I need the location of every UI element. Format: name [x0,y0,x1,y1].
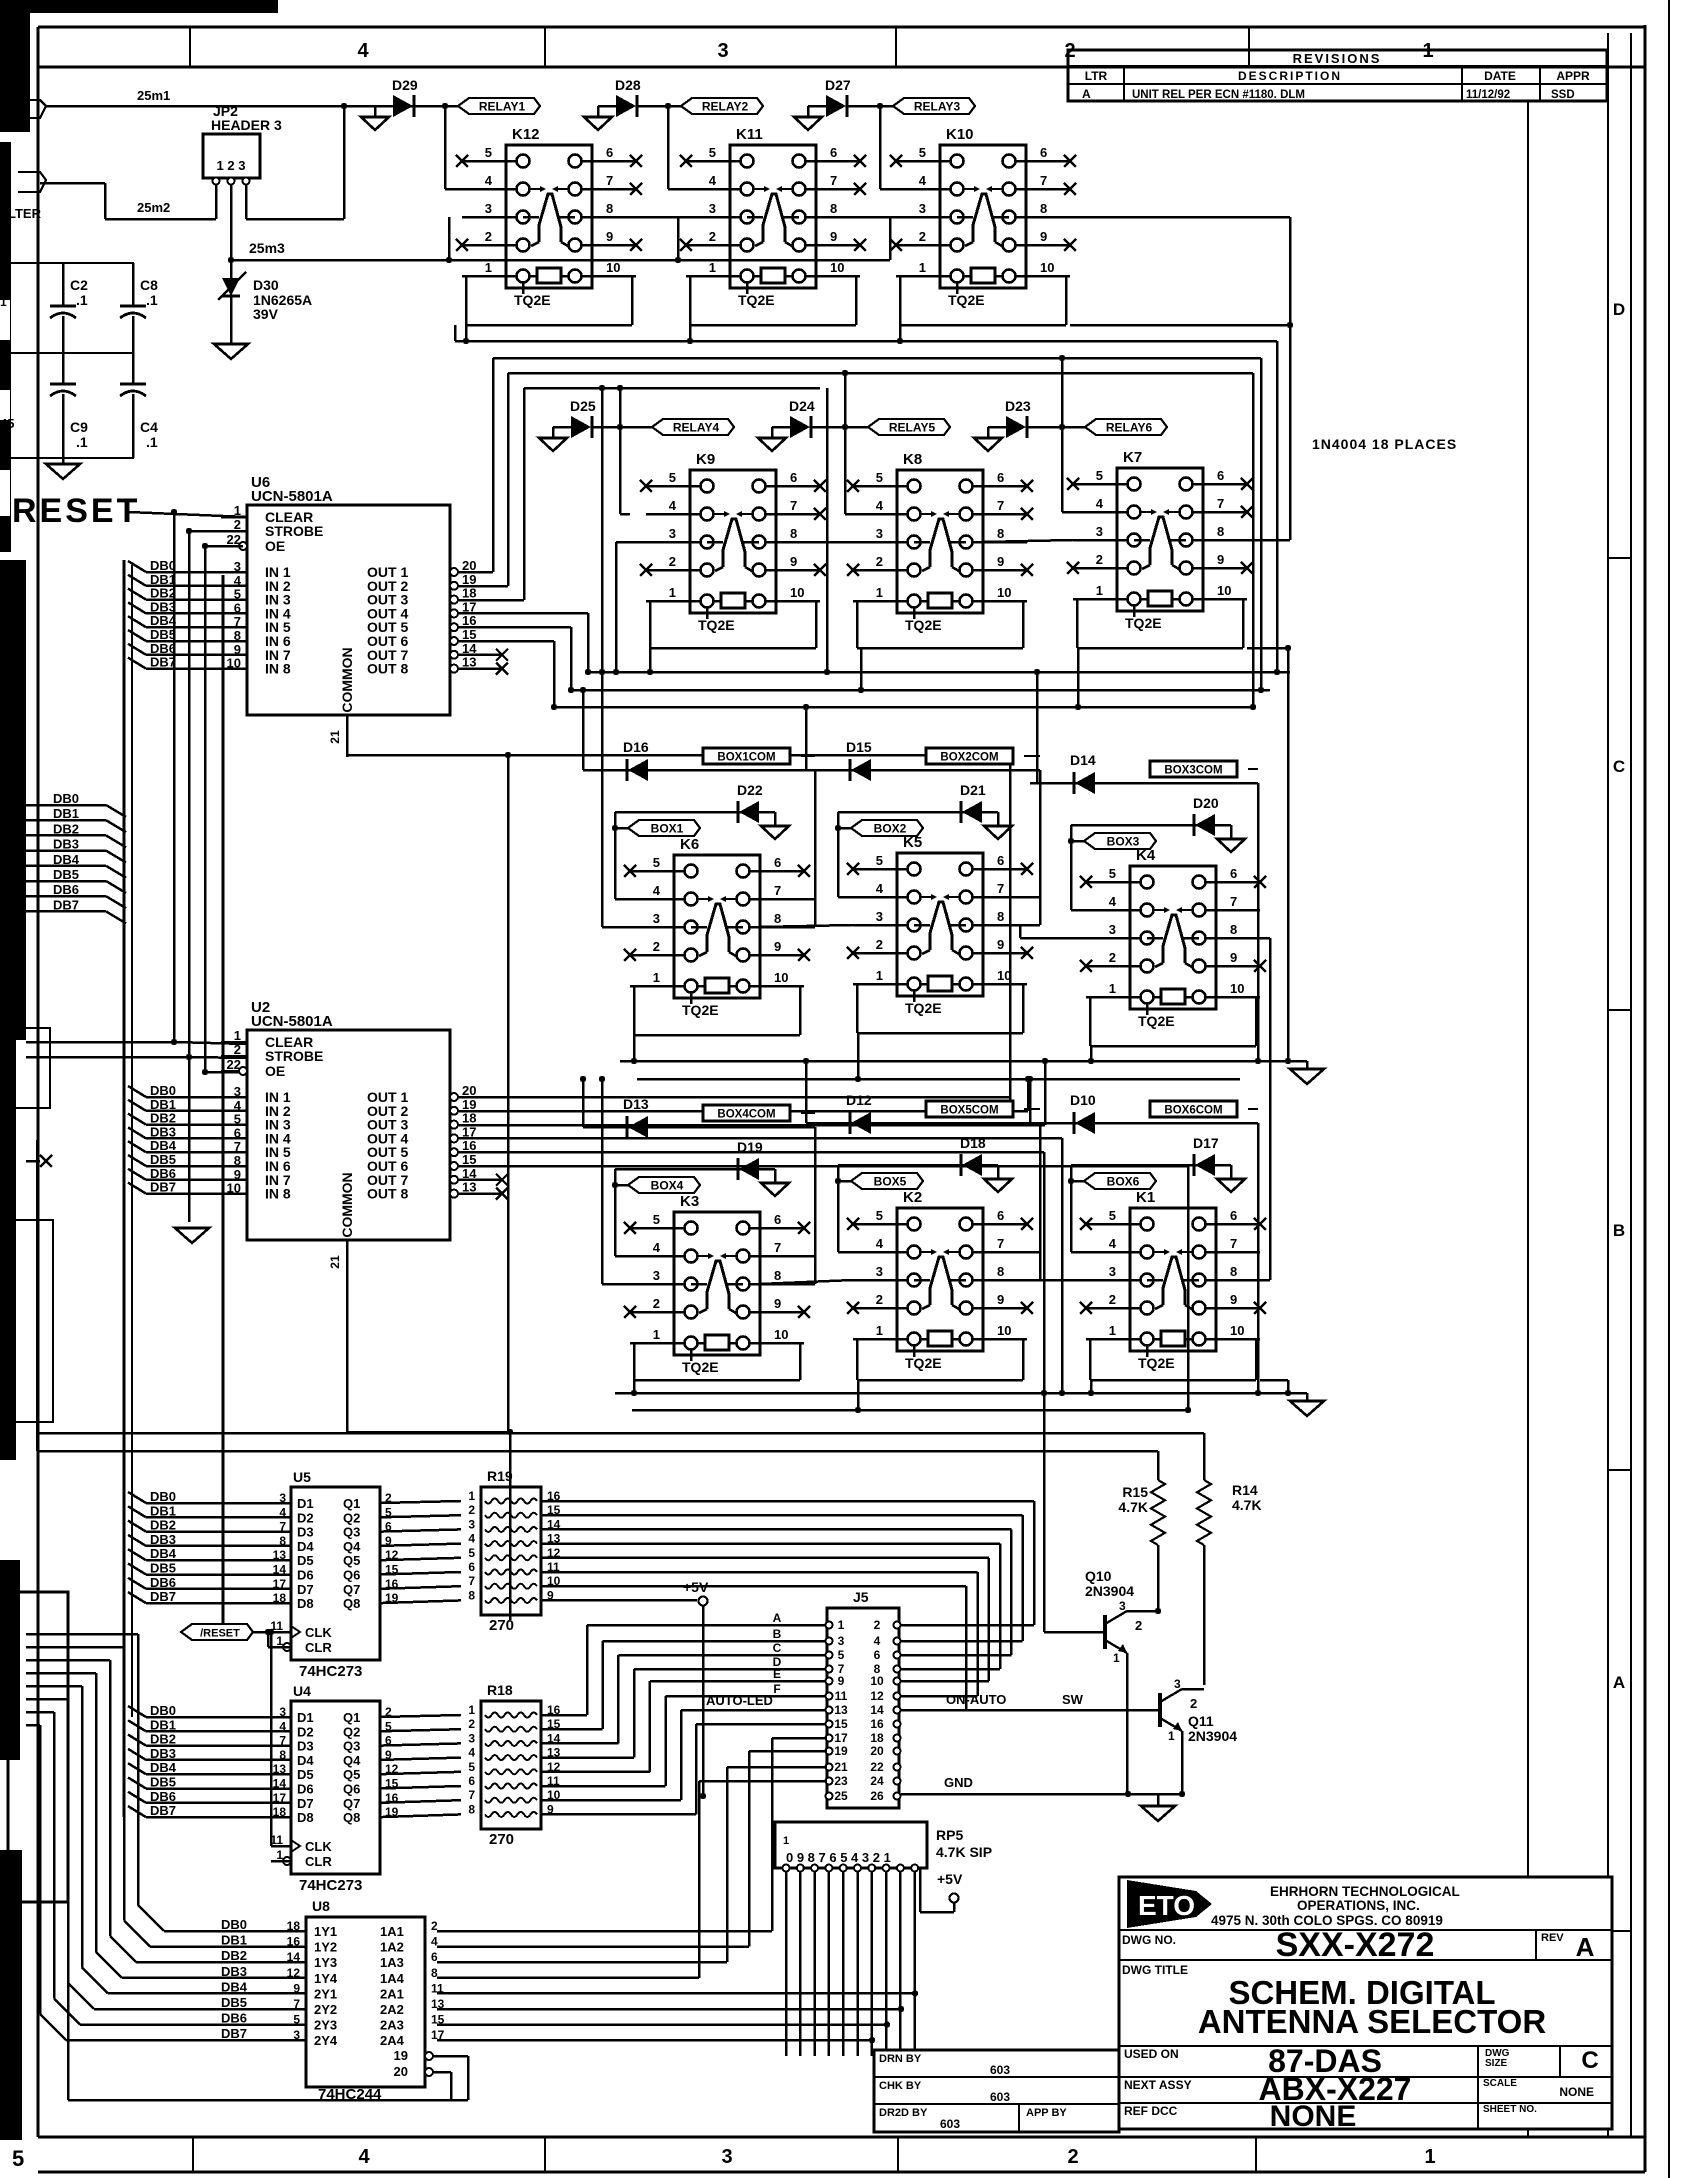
svg-text:Q7: Q7 [343,1582,360,1597]
svg-text:1: 1 [709,260,716,275]
svg-text:UCN-5801A: UCN-5801A [251,1013,333,1030]
svg-text:2: 2 [431,1919,438,1933]
svg-text:7: 7 [1217,496,1224,511]
relay K3 [674,1212,760,1355]
svg-text:K1: K1 [1136,1189,1155,1206]
svg-text:TQ2E: TQ2E [905,617,942,633]
svg-text:19: 19 [462,1097,476,1112]
svg-text:RESET: RESET [12,492,140,530]
wire [774,812,777,826]
wire RELAY4 riser [619,388,622,427]
svg-text:D4: D4 [297,1753,314,1768]
ground [597,106,600,117]
svg-text:8: 8 [468,1588,475,1602]
svg-text:10: 10 [1040,260,1054,275]
wire BOX3COM tail [1257,783,1260,1061]
svg-text:4: 4 [485,173,493,188]
relay K5 [897,853,983,996]
svg-text:ETO: ETO [1138,1890,1195,1921]
wire [774,1169,777,1183]
svg-text:SIZE: SIZE [1485,2058,1508,2069]
svg-text:4: 4 [709,173,717,188]
svg-text:1Y2: 1Y2 [314,1940,337,1955]
wires U5 Q to R19 [380,1501,461,1503]
wire [857,1033,860,1079]
svg-text:9: 9 [1230,950,1237,965]
svg-text:5: 5 [1109,1208,1116,1223]
svg-text:D14: D14 [1070,752,1096,768]
connector J5 [827,1608,899,1808]
svg-text:.1: .1 [146,292,158,308]
svg-text:RELAY1: RELAY1 [479,100,526,114]
wire RESET to U6 CLEAR [128,512,247,517]
svg-text:7: 7 [774,1240,781,1255]
svg-text:6: 6 [468,1560,475,1574]
svg-text:4: 4 [1109,894,1117,909]
svg-text:IN 8: IN 8 [265,661,291,677]
connector stub FILTER [18,172,46,192]
wire [649,648,652,672]
wire Q10 collector [1127,1610,1158,1613]
svg-text:1: 1 [1109,1323,1116,1338]
svg-text:Q5: Q5 [343,1553,360,1568]
svg-text:GND: GND [944,1775,973,1790]
svg-text:3: 3 [721,2146,732,2168]
svg-text:BOX2COM: BOX2COM [940,752,998,764]
capacitor C9 [62,353,65,384]
svg-text:21: 21 [328,730,342,744]
svg-text:6: 6 [774,855,781,870]
svg-text:1: 1 [876,968,883,983]
svg-text:DATE: DATE [1484,69,1516,83]
relay K2 [897,1208,983,1351]
svg-text:RP5: RP5 [936,1827,963,1843]
svg-text:5: 5 [485,145,492,160]
svg-text:2: 2 [485,229,492,244]
wires R18 to J5 [541,1714,587,1717]
wire K8 pin8 to K7 pin3 [983,540,1073,542]
svg-text:5: 5 [468,1760,475,1774]
wire BOX1COM net [583,769,815,772]
svg-text:10: 10 [774,1327,788,1342]
svg-text:22: 22 [870,1760,884,1774]
svg-text:21: 21 [328,1255,342,1269]
svg-text:K7: K7 [1123,449,1142,466]
svg-text:9: 9 [1230,1292,1237,1307]
relay K10 [940,145,1026,288]
svg-text:UNIT REL PER ECN #1180. DLM: UNIT REL PER ECN #1180. DLM [1132,89,1305,101]
wire BOX2COM net [806,769,1040,772]
svg-text:1Y4: 1Y4 [314,1971,338,1986]
svg-text:1A3: 1A3 [380,1955,404,1970]
svg-text:CHK BY: CHK BY [879,2080,922,2092]
svg-text:RELAY6: RELAY6 [1106,421,1153,435]
wire [1077,648,1080,707]
svg-text:10: 10 [1230,981,1244,996]
wire riser U2 OUT3 [1044,1061,1047,1125]
wire riser U6 OUT3 [523,388,526,600]
svg-text:D23: D23 [1005,398,1031,414]
svg-text:SCALE: SCALE [1483,2078,1517,2089]
wire to R15 [37,1450,1158,1453]
svg-text:K3: K3 [680,1193,699,1210]
net flag BOX3 [1071,840,1084,843]
svg-text:6: 6 [468,1774,475,1788]
svg-text:2: 2 [1135,1618,1142,1633]
svg-text:9: 9 [838,1674,845,1688]
svg-text:Q2: Q2 [343,1724,360,1739]
wire K5 pin7 link [1027,896,1040,899]
svg-text:D24: D24 [789,398,815,414]
svg-text:3: 3 [485,201,492,216]
svg-text:2: 2 [709,229,716,244]
resistor network R18 270 [481,1701,541,1829]
wire riser U2 OUT5 [1043,1152,1046,1393]
svg-text:D29: D29 [392,77,418,93]
wire [812,426,868,429]
svg-text:8: 8 [606,201,613,216]
wire [465,325,468,341]
ground [761,826,789,839]
svg-text:Q7: Q7 [343,1796,360,1811]
svg-text:D6: D6 [297,1782,314,1797]
capacitor C8 [120,305,146,308]
rect stub left [11,1220,53,1422]
wire [1009,755,1012,1101]
wire row3 coil bus [620,1060,1307,1063]
svg-text:2: 2 [669,554,676,569]
svg-text:2A1: 2A1 [380,1986,404,2001]
wire row4 coil bus [615,1392,1307,1395]
diode D14 [1075,772,1095,794]
wire [828,1872,831,2056]
svg-text:APP BY: APP BY [1026,2107,1067,2119]
diode D10 [1075,1112,1095,1134]
capacitor C4 [120,383,146,386]
wire [826,388,829,672]
svg-text:K11: K11 [736,126,763,143]
svg-text:2: 2 [876,937,883,952]
svg-text:/RESET: /RESET [200,1628,240,1640]
svg-text:4: 4 [357,40,369,62]
relay K11 [730,145,816,288]
wire JP2 pin3 [245,185,248,219]
svg-text:RELAY2: RELAY2 [702,100,749,114]
svg-text:7: 7 [997,881,1004,896]
svg-text:AUTO-LED: AUTO-LED [706,1693,773,1708]
wire row1 coil bus [455,340,1277,343]
svg-text:SHEET NO.: SHEET NO. [1483,2104,1537,2115]
svg-text:J5: J5 [853,1589,869,1605]
zener D30 1N6265A [230,260,233,278]
svg-text:8: 8 [774,1268,781,1283]
svg-text:R18: R18 [487,1682,513,1698]
svg-text:D: D [1613,300,1625,319]
svg-text:7: 7 [774,883,781,898]
svg-text:9: 9 [997,1292,1004,1307]
diode D15 [851,759,871,781]
svg-text:1: 1 [669,585,676,600]
svg-text:7: 7 [0,278,7,293]
wire [856,1872,859,2056]
svg-text:2Y2: 2Y2 [314,2002,337,2017]
relay K6 [674,855,760,998]
svg-text:D3: D3 [297,1739,314,1754]
wire riser U6 OUT2 [507,373,510,586]
wire [507,755,510,1432]
wire U6 OUT5 to row2 bus [457,626,571,629]
svg-text:17: 17 [462,599,476,614]
relay K12 [506,145,592,288]
svg-text:2: 2 [468,1503,475,1517]
op-amp U2 UCN-5801A [247,1030,450,1240]
svg-text:D30: D30 [253,277,279,293]
svg-text:10: 10 [870,1674,884,1688]
bus line [222,575,225,1624]
wire BOX4COM net [583,1126,815,1129]
wire [689,325,692,341]
svg-text:3: 3 [669,526,676,541]
svg-text:TQ2E: TQ2E [698,617,735,633]
svg-text:10: 10 [997,968,1011,983]
svg-text:TQ2E: TQ2E [514,292,551,308]
svg-text:1: 1 [468,1489,475,1503]
svg-text:5: 5 [669,470,676,485]
wire [465,276,468,325]
svg-text:U4: U4 [293,1683,311,1699]
svg-text:CLR: CLR [305,1854,332,1869]
ground [62,458,65,464]
svg-text:1: 1 [876,585,883,600]
svg-text:20: 20 [462,558,476,573]
svg-text:20: 20 [394,2064,408,2079]
edge connector [8,1592,68,1902]
ground [1306,1061,1309,1069]
svg-text:B: B [1613,1221,1625,1240]
svg-text:K10: K10 [946,126,974,143]
svg-text:1: 1 [919,260,926,275]
drawn by block [874,2050,1119,2132]
svg-text:U5: U5 [293,1469,311,1485]
diode D22 [615,811,775,814]
svg-text:C: C [1613,757,1625,776]
ground [987,427,990,438]
wire U4 CLR [283,1860,291,1863]
capacitor C2 [0,262,134,264]
buffer U8 74HC244 [306,1917,425,2087]
wire [415,105,458,108]
svg-text:K8: K8 [903,451,922,468]
wire right bus drop 2 [1260,358,1263,690]
svg-text:BOX3COM: BOX3COM [1164,765,1222,777]
svg-text:DRN BY: DRN BY [879,2053,922,2065]
svg-text:19: 19 [834,1744,848,1758]
ground [1217,839,1245,852]
wire to R14 [37,1432,1204,1435]
wire [785,1872,788,2056]
svg-text:16: 16 [462,613,476,628]
svg-text:6: 6 [997,470,1004,485]
svg-text:3: 3 [1096,524,1103,539]
svg-text:D21: D21 [960,782,986,798]
svg-text:8: 8 [997,526,1004,541]
net flag RELAY4 [652,419,734,435]
svg-text:C9: C9 [70,419,88,435]
svg-text:270: 270 [489,1831,514,1848]
wire K2 pin8 to K1 pin3 [983,1279,1086,1282]
svg-text:1: 1 [1168,1729,1175,1743]
wire [913,1872,916,2056]
wire [1089,997,1092,1046]
svg-text:8: 8 [774,911,781,926]
svg-text:D12: D12 [846,1092,872,1108]
svg-text:Q6: Q6 [343,1782,360,1797]
wire [638,105,681,108]
svg-text:D5: D5 [297,1553,314,1568]
wire [997,1165,1000,1179]
svg-text:2: 2 [874,1618,881,1632]
net flag RELAY3 [893,98,975,114]
svg-text:4: 4 [876,881,884,896]
svg-text:U8: U8 [312,1898,330,1914]
svg-text:8: 8 [1230,922,1237,937]
net label BOX4COM [703,1105,790,1121]
svg-text:TQ2E: TQ2E [682,1002,719,1018]
svg-text:TQ2E: TQ2E [948,292,985,308]
svg-text:3: 3 [653,1268,660,1283]
svg-text:3: 3 [838,1634,845,1648]
wire [0,352,134,354]
wire K10 pin8 chain to K7 pin8 [1026,216,1290,219]
svg-text:+5V: +5V [937,1871,963,1887]
svg-text:14: 14 [870,1703,884,1717]
svg-text:LTER: LTER [8,206,42,221]
wire [899,276,902,325]
net label BOX2COM [926,748,1013,764]
svg-text:4: 4 [1109,1236,1117,1251]
diode D29 [375,105,393,108]
ground [1157,1794,1160,1806]
wire K2 pin7 link [1027,1251,1040,1254]
svg-text:2N3904: 2N3904 [1188,1728,1237,1744]
svg-text:CLK: CLK [305,1625,332,1640]
header JP2 [203,134,260,178]
svg-text:1 2 3: 1 2 3 [217,158,246,173]
svg-text:6: 6 [997,853,1004,868]
svg-text:6: 6 [997,1208,1004,1223]
wire 25m2 [40,182,105,185]
svg-text:1: 1 [783,1835,789,1847]
svg-text:OUT 8: OUT 8 [367,661,408,677]
svg-text:RELAY3: RELAY3 [914,100,961,114]
svg-text:Q4: Q4 [343,1539,361,1554]
wires U8 rows 5-8 to RP5 [437,1992,915,1995]
svg-text:NONE: NONE [1559,2085,1594,2099]
wire [1043,1393,1046,1632]
wire [1157,1545,1160,1610]
wire U6 common [346,715,349,755]
svg-text:D1: D1 [297,1710,314,1725]
relay K8 [897,470,983,613]
wire to K12 pin4 [444,106,447,189]
svg-text:EHRHORN TECHNOLOGICAL: EHRHORN TECHNOLOGICAL [1270,1884,1460,1899]
wire JP2 pin1 [215,185,218,219]
bus fan to U8 [26,1633,138,1636]
rect stub left2 [0,1028,50,1108]
svg-text:2: 2 [1190,1696,1197,1711]
wire riser U2 OUT1 [1009,1079,1012,1097]
svg-text:8: 8 [431,1966,438,1980]
svg-text:39V: 39V [253,306,279,322]
svg-text:45: 45 [0,416,14,431]
svg-text:1A2: 1A2 [380,1940,404,1955]
svg-text:C4: C4 [140,419,158,435]
diode D28 [598,105,616,108]
svg-text:K9: K9 [696,451,715,468]
svg-text:1: 1 [1113,1651,1120,1665]
net flag BOX6 [1071,1180,1084,1183]
resistor R15 4.7K [1151,1480,1165,1545]
svg-text:16: 16 [462,1138,476,1153]
svg-text:Q10: Q10 [1085,1568,1112,1584]
net flag /RESET [181,1624,253,1640]
svg-text:TQ2E: TQ2E [1138,1013,1175,1029]
wire [856,1339,859,1380]
wires U4 Q to R18 [380,1715,461,1717]
svg-text:UCN-5801A: UCN-5801A [251,488,333,505]
svg-text:3: 3 [876,909,883,924]
svg-text:5: 5 [838,1648,845,1662]
svg-text:OUT 8: OUT 8 [367,1186,408,1202]
diode D21 [838,811,998,814]
svg-text:C: C [1581,2047,1598,2074]
op-amp U4 74HC273 [291,1701,380,1874]
svg-text:BOX4: BOX4 [651,1179,684,1193]
wire [871,1872,874,2056]
net label BOX5COM [926,1101,1013,1117]
svg-text:6: 6 [1040,145,1047,160]
svg-text:TQ2E: TQ2E [682,1359,719,1375]
wire to relay pin4 [1070,1165,1073,1252]
svg-text:3: 3 [1119,1599,1126,1613]
svg-text:D4: D4 [297,1539,314,1554]
svg-text:1: 1 [485,260,492,275]
svg-text:REF DCC: REF DCC [1124,2104,1178,2118]
svg-text:A: A [1082,87,1091,101]
svg-text:4: 4 [468,1746,475,1760]
resistor R14 4.7K [1197,1480,1211,1545]
wire [813,1872,816,2056]
wire [509,1432,512,1620]
svg-text:5: 5 [468,1546,475,1560]
svg-text:6: 6 [790,470,797,485]
svg-text:4: 4 [468,1532,475,1546]
svg-text:DR2D BY: DR2D BY [879,2107,928,2119]
svg-text:E: E [773,1667,781,1681]
svg-text:SW: SW [1062,1692,1084,1707]
wire riser U2 OUT6 [1187,1166,1190,1410]
wire [0,457,134,459]
svg-text:19: 19 [462,572,476,587]
logo ETO [1127,1880,1212,1928]
svg-text:9: 9 [774,939,781,954]
svg-text:18: 18 [462,1111,476,1126]
svg-text:1: 1 [1109,981,1116,996]
net flag BOX2 [838,827,851,830]
svg-text:7: 7 [1040,173,1047,188]
wire K3 pin7 link [804,1255,815,1258]
wire to K12 pin 3 [448,217,451,260]
